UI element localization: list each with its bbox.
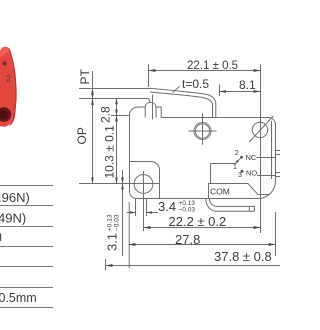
label 3.1 +0.13 -0.03 xyxy=(105,214,121,251)
svg-text:PT: PT xyxy=(78,68,92,84)
svg-text:3: 3 xyxy=(238,172,242,179)
27.8 dimension line xyxy=(129,244,276,246)
body bottom-left corner xyxy=(130,192,137,199)
lever blade bottom edge xyxy=(150,92,213,118)
body bottom edge xyxy=(137,198,259,200)
free position line A xyxy=(79,88,150,90)
right extension line through hole xyxy=(260,65,262,234)
22.1 left extension line xyxy=(148,65,150,88)
COM terminal tab xyxy=(206,199,255,211)
37.8 left arrow xyxy=(106,264,113,267)
10.3 arrow up at D xyxy=(115,116,118,122)
PT OP dimension line xyxy=(92,71,94,184)
body top-right corner xyxy=(269,118,276,125)
reference line D xyxy=(111,115,130,117)
22.2 dimension line xyxy=(144,227,261,229)
8.1 right arrow xyxy=(254,90,261,93)
dimension 3.1 line xyxy=(122,170,124,256)
3.4 dimension line right tail xyxy=(147,212,159,214)
svg-text:+0.13: +0.13 xyxy=(107,214,114,231)
svg-text:2: 2 xyxy=(235,150,239,157)
svg-text:−0.03: −0.03 xyxy=(179,207,196,214)
body hinge hump xyxy=(130,102,162,117)
svg-text:OP: OP xyxy=(75,127,89,144)
table row line 7 xyxy=(0,307,53,309)
svg-text:2: 2 xyxy=(6,74,11,84)
37.8 left extension line xyxy=(105,259,107,271)
10.3 arrow down at C xyxy=(115,178,118,184)
schematic blade xyxy=(235,157,242,164)
svg-text:t=0.5: t=0.5 xyxy=(182,77,209,91)
schematic NC lead xyxy=(257,157,277,159)
top hole horizontal centerline xyxy=(189,130,217,132)
schematic COM wire vertical xyxy=(210,164,212,184)
right hole slash xyxy=(249,116,273,142)
hole boss outline xyxy=(130,161,160,198)
body right edge xyxy=(275,125,277,182)
table row line 3 xyxy=(0,226,53,228)
table text sliver row3 xyxy=(0,234,1,242)
top mounting hole xyxy=(195,124,209,138)
table row line 6 xyxy=(0,287,53,289)
27.8 right arrow xyxy=(269,243,276,246)
plunger shaft sides xyxy=(145,107,156,118)
left mounting hole xyxy=(134,175,153,194)
terminal block shelf xyxy=(209,184,269,199)
NO lead stub on right edge xyxy=(276,173,281,177)
body inner right line xyxy=(271,121,273,179)
t leader line xyxy=(173,87,180,93)
schematic NO lead xyxy=(257,175,276,177)
27.8 left arrow xyxy=(129,243,136,246)
22.2 right arrow xyxy=(254,226,261,229)
22.2 left arrow xyxy=(144,226,151,229)
body bottom-right corner arc xyxy=(258,181,276,199)
svg-text:1: 1 xyxy=(233,164,237,171)
svg-text:−0.03: −0.03 xyxy=(114,214,121,231)
OP arrow up at B xyxy=(91,99,94,105)
3.4 arrow left xyxy=(147,211,153,214)
svg-text:.96N): .96N) xyxy=(0,190,30,205)
svg-text:3.4: 3.4 xyxy=(158,199,176,214)
svg-text:37.8 ± 0.8: 37.8 ± 0.8 xyxy=(214,249,272,264)
22.1 left arrow xyxy=(149,69,156,72)
operating position line B xyxy=(79,99,150,103)
top hole vertical centerline xyxy=(202,114,204,145)
schematic NC contact dot xyxy=(240,156,243,159)
lever blade top edge xyxy=(150,88,216,117)
svg-text:3.1: 3.1 xyxy=(105,233,120,251)
schematic NO contact dot xyxy=(241,170,244,173)
3.4 dimension line left tail xyxy=(127,212,136,214)
photo dark rivet dot xyxy=(2,61,6,65)
3.1 arrow up xyxy=(121,184,124,190)
dimension line 2.8/10.3 xyxy=(116,99,118,184)
37.8 dimension line xyxy=(106,265,281,267)
svg-text:0.5mm: 0.5mm xyxy=(0,291,37,305)
left hole vertical centerline xyxy=(143,171,145,197)
table row line 2 xyxy=(0,205,53,207)
photo dark plunger circle xyxy=(0,107,11,122)
PT arrow up xyxy=(91,89,93,95)
plunger centerline xyxy=(152,95,154,120)
27.8 right extension line xyxy=(275,212,277,256)
table row line 4 xyxy=(0,246,53,248)
8.1 left arrow xyxy=(220,90,227,93)
svg-text:COM: COM xyxy=(210,187,230,197)
hole centerline C xyxy=(79,183,160,185)
table row line 1 xyxy=(0,185,53,187)
body left edge xyxy=(129,114,131,192)
22.1 right arrow xyxy=(254,69,261,72)
left hole extension line down xyxy=(143,194,145,231)
svg-text:49N): 49N) xyxy=(0,210,26,225)
22.1 dimension line xyxy=(149,70,261,72)
body left extension tick xyxy=(128,202,130,268)
2.8 arrow up xyxy=(115,99,118,105)
svg-text:10.3 ± 0.1: 10.3 ± 0.1 xyxy=(103,125,117,179)
PT arrow down xyxy=(91,94,93,99)
3.1 arrow down xyxy=(121,178,124,184)
body top edge xyxy=(161,117,268,119)
schematic blade arrowhead xyxy=(235,160,239,164)
schematic COM wire horizontal xyxy=(211,163,236,165)
svg-text:22.2 ± 0.2: 22.2 ± 0.2 xyxy=(169,214,227,229)
8.1 dimension line xyxy=(220,91,261,93)
terminal tab extension left xyxy=(135,199,137,217)
svg-text:8.1: 8.1 xyxy=(239,78,256,92)
COM tab notch xyxy=(248,206,250,211)
3.4 arrow right xyxy=(130,211,136,214)
OP arrow down at C xyxy=(91,178,94,184)
8.1 left extension xyxy=(219,85,221,97)
product photo red microswitch xyxy=(0,47,17,127)
svg-text:NO: NO xyxy=(246,168,257,177)
svg-text:NC: NC xyxy=(246,153,257,162)
2.8 arrow down xyxy=(115,110,118,116)
right mounting hole xyxy=(252,122,267,137)
terminal tab extension right xyxy=(146,199,148,217)
svg-text:2.8: 2.8 xyxy=(99,106,113,123)
NC lead stub on right edge xyxy=(276,151,281,155)
table row line 5 xyxy=(0,266,53,268)
